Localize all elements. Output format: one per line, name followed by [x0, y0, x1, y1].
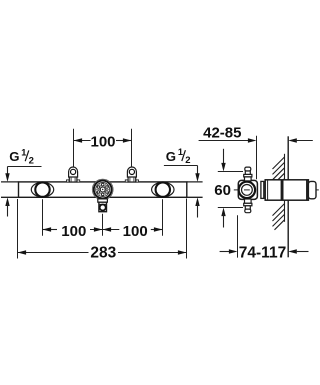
side view top tube cap	[245, 167, 251, 171]
side view top tube body	[245, 177, 252, 181]
svg-text:100: 100	[123, 223, 148, 240]
svg-text:60: 60	[214, 182, 231, 199]
wall face inner line	[284, 154, 286, 222]
left top outlet fitting	[67, 167, 80, 182]
flange spokes	[96, 184, 109, 195]
side view valve circle	[239, 182, 255, 198]
bar edge extension tick left bottom	[1, 196, 19, 198]
dimension 42-85	[199, 125, 313, 180]
flange bolt holes	[97, 183, 108, 195]
svg-text:2: 2	[185, 155, 190, 166]
wall hatching below	[273, 204, 285, 230]
flange center boss	[100, 187, 105, 192]
wall hatching above	[273, 157, 285, 180]
central flange outer ring	[92, 179, 113, 200]
mounting bar body	[19, 182, 187, 197]
bottom outlet fitting collar	[98, 199, 108, 202]
housing groove	[306, 180, 308, 200]
side view bottom tube neck	[245, 206, 250, 209]
svg-text:2: 2	[29, 155, 34, 166]
dimension 100 top	[74, 129, 132, 167]
svg-text:74-117: 74-117	[239, 244, 286, 261]
bottom outlet fitting circle	[100, 205, 106, 211]
side view top tube ring	[244, 174, 252, 177]
side view top tube neck	[245, 171, 250, 175]
svg-text:100: 100	[90, 133, 115, 150]
svg-text:42-85: 42-85	[203, 125, 241, 142]
housing dark ring	[281, 180, 284, 200]
right inlet port nut	[152, 182, 174, 196]
bottom outlet fitting body	[99, 202, 107, 212]
central flange bold ring	[94, 181, 112, 199]
bar edge extension tick right top	[187, 181, 203, 183]
dimension 74-117	[220, 215, 309, 261]
dimension 100 / 100 bottom	[43, 199, 163, 240]
side view bottom tube ring	[244, 203, 252, 206]
svg-text:G: G	[166, 149, 176, 164]
bar edge extension tick right bottom	[187, 196, 203, 198]
right top outlet fitting	[125, 167, 138, 182]
side view centerline dashes	[234, 189, 319, 191]
svg-text:100: 100	[61, 223, 86, 240]
left inlet port nut	[31, 182, 53, 196]
bar edge extension tick left top	[1, 181, 19, 183]
label G 1/2 right	[164, 147, 200, 217]
side view bottom tube tip	[245, 209, 251, 213]
side view housing cylinder	[265, 180, 308, 200]
label G 1/2 left	[5, 147, 41, 216]
svg-text:G: G	[9, 149, 19, 164]
svg-text:283: 283	[90, 245, 116, 262]
bottom outlet fitting band	[99, 203, 107, 205]
central flange inner ring	[96, 183, 110, 197]
wall face outer line	[287, 136, 289, 257]
side view bottom tube body	[245, 199, 252, 203]
svg-text:1: 1	[178, 147, 183, 157]
dimension 283	[18, 199, 187, 262]
side view flange plate	[261, 181, 264, 198]
svg-text:1: 1	[21, 147, 26, 157]
side view valve body square	[238, 180, 257, 199]
housing end cap	[308, 181, 316, 198]
dimension 60	[214, 149, 243, 228]
